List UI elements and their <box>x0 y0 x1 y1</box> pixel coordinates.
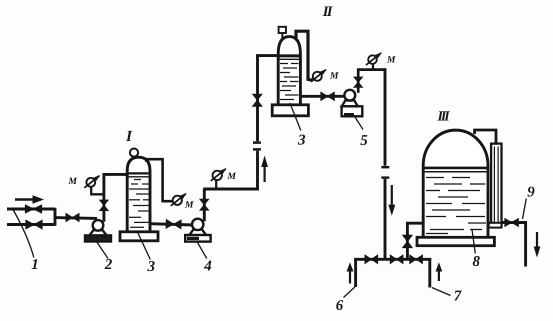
vessel V8 shell <box>423 130 488 237</box>
label III <box>437 111 450 120</box>
wire combined feed <box>55 216 97 220</box>
column C1 hatching <box>129 180 149 228</box>
leader 5 <box>355 117 363 130</box>
valve C2 bottoms <box>321 92 335 100</box>
wire feed line upper <box>7 208 55 211</box>
gauge M C1 overhead <box>171 193 187 206</box>
column C2 hatching <box>280 64 299 100</box>
valve manifold left <box>365 255 378 264</box>
wire downcomer lower <box>384 179 387 261</box>
wire P4 gauge stem <box>215 181 217 190</box>
wire C2 bottoms <box>300 95 345 98</box>
label M P4 <box>227 173 236 179</box>
condenser K foot <box>489 223 502 228</box>
vessel V8 base <box>417 237 494 245</box>
wire P2 gauge branch <box>91 187 104 195</box>
wire riser I-II lower <box>256 151 259 191</box>
wire C1 bottoms <box>150 224 194 225</box>
valve manifold right <box>410 255 423 264</box>
vessel V8 liquid line <box>423 168 488 172</box>
wire manifold <box>354 258 431 261</box>
wire feed to column I <box>103 173 129 176</box>
label 2 <box>105 259 112 269</box>
leader 1 <box>13 210 34 258</box>
label 8 <box>473 256 480 266</box>
leader 9 <box>523 199 527 220</box>
column C1 shell <box>127 157 150 232</box>
pump P4 base shade <box>187 237 199 240</box>
union downcomer <box>381 167 389 177</box>
gauge M P2 <box>84 175 100 188</box>
label M P2 <box>68 178 77 184</box>
label M P5 <box>387 56 396 62</box>
column C2 base <box>272 105 308 116</box>
leader 3 <box>138 232 151 260</box>
arrow up riser I-II <box>261 156 268 183</box>
leader 8 <box>472 230 475 254</box>
valve outlet9 <box>505 219 519 227</box>
union riser I-II <box>253 143 261 150</box>
pump P5 <box>342 90 363 117</box>
wire P4 run to riser <box>203 188 259 191</box>
valve P2 discharge <box>100 200 109 211</box>
label 6 <box>336 300 343 310</box>
valve riser I-II <box>253 94 262 106</box>
wire feed junction <box>54 208 57 226</box>
vessel V8 hatching <box>426 178 486 234</box>
wire riser I-II upper <box>256 54 259 141</box>
column C1 cap <box>130 149 138 157</box>
valve vessel drain <box>403 235 413 248</box>
pump P5 base shade <box>344 113 354 116</box>
column C2 liquid line <box>278 56 300 59</box>
label 7 <box>454 291 461 301</box>
arrow up inlet7 <box>436 262 443 281</box>
gauge M P5 <box>366 52 382 65</box>
valve combined feed <box>66 213 79 221</box>
label 4 <box>204 261 211 271</box>
leader 6 <box>344 287 355 298</box>
pump P2 <box>85 220 111 241</box>
column C2 cap <box>279 27 286 38</box>
column C1 liquid line <box>127 173 150 176</box>
wire vessel drain riser <box>406 222 409 261</box>
column C2 shell <box>278 37 300 105</box>
valve P4 discharge <box>200 199 209 210</box>
wire manifold left drop <box>354 258 357 287</box>
leader 2 <box>97 242 109 259</box>
wire P2 discharge riser <box>102 173 105 222</box>
wire feed to column II <box>256 54 279 57</box>
column C1 base <box>120 232 158 241</box>
leader 4 <box>198 243 207 259</box>
label M C1 <box>185 201 194 207</box>
gauge M C2 overhead <box>311 69 327 82</box>
leader 3II <box>290 103 301 131</box>
arrow down outlet9 <box>534 232 541 258</box>
wire condenser outlet <box>502 221 527 224</box>
wire outlet9 drop <box>524 221 527 266</box>
label 3 <box>147 261 154 271</box>
label 5 <box>360 135 367 145</box>
condenser K inner <box>494 147 498 223</box>
arrow down downcomer <box>388 185 395 216</box>
label 1 <box>32 259 38 269</box>
leader 7 <box>432 288 451 296</box>
wire C1 overhead <box>147 159 174 201</box>
valve feed lower <box>26 220 42 229</box>
wire manifold right drop <box>428 258 431 288</box>
wire V8 overhead to condenser <box>475 130 496 146</box>
flow arrow inlet <box>15 195 44 203</box>
label 9 <box>527 187 534 197</box>
condenser K shell <box>491 144 501 226</box>
label M C2 <box>330 72 339 78</box>
valve manifold mid <box>390 255 403 264</box>
wire P4 discharge riser <box>203 189 206 221</box>
arrow up inlet6 <box>347 262 354 283</box>
wire C2 overhead <box>296 31 313 80</box>
label 3II <box>298 135 305 145</box>
label II <box>323 7 333 16</box>
gauge M P4 <box>211 168 227 181</box>
wire P5 discharge <box>358 70 385 93</box>
wire vessel drain horizontal <box>406 222 424 225</box>
valve C1 bottoms <box>166 219 181 228</box>
valve feed upper <box>25 205 41 213</box>
label I <box>126 131 133 141</box>
valve P5 discharge <box>354 77 363 87</box>
wire P5 gauge stem <box>372 64 374 70</box>
pump P4 <box>185 219 210 242</box>
wire feed line lower <box>7 223 55 226</box>
wire downcomer upper <box>384 68 387 165</box>
